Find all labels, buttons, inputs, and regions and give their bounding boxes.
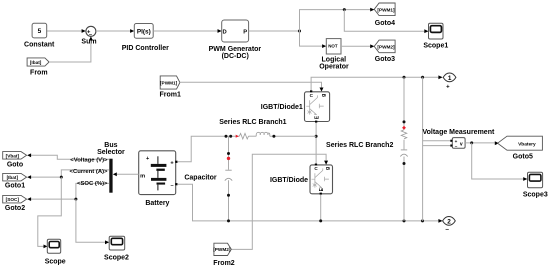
node capacitor top terminal <box>227 152 230 155</box>
wire SOC junction down to Scope2 <box>76 199 106 242</box>
svg-text:[Vbat]: [Vbat] <box>6 153 20 158</box>
node top rail to RLC branch2 <box>403 76 406 79</box>
svg-text:Goto: Goto <box>7 162 23 169</box>
svg-text:Vbatery: Vbatery <box>518 142 536 148</box>
svg-text:Constant: Constant <box>24 42 55 49</box>
wire From to Sum minus input <box>49 40 91 62</box>
svg-text:<Current (A)>: <Current (A)> <box>70 169 109 175</box>
scope block Scope1 <box>429 23 444 39</box>
svg-text:[SOC]: [SOC] <box>6 197 20 202</box>
goto tag Goto2 [SOC] <box>3 195 27 203</box>
wire Sum to PID <box>96 30 131 32</box>
node RLC branch1 left terminal <box>229 135 232 138</box>
goto tag Goto5 Vbatery <box>498 136 543 150</box>
svg-text:(DC-DC): (DC-DC) <box>222 53 249 60</box>
svg-text:NOT: NOT <box>328 44 338 49</box>
pwm generator block <box>222 20 249 42</box>
svg-text:Goto2: Goto2 <box>5 205 25 212</box>
from tag From1 [PWM1] <box>160 76 180 89</box>
scope block Scope <box>47 239 60 253</box>
polarity mark red capacitor <box>227 157 230 160</box>
svg-text:[PWM1]: [PWM1] <box>160 80 178 85</box>
wire IGBT1 emitter down to RLC1 node and IGBT2 collector <box>315 123 317 164</box>
goto tag Goto3 [PWM2] <box>374 40 395 53</box>
svg-text:Goto4: Goto4 <box>375 20 395 27</box>
svg-text:[Ibat]: [Ibat] <box>7 175 19 180</box>
wire bus selector Voltage output to Goto tag <box>31 155 109 159</box>
wire NOT to Goto3 <box>341 45 371 47</box>
constant block Constant <box>32 23 47 38</box>
node RLC1 output junction <box>315 135 318 138</box>
node bottom rail IGBT2 emitter <box>319 219 322 222</box>
node current branch junction <box>60 176 63 179</box>
series RLC branch2 vertical <box>403 77 405 221</box>
wire junction up to Goto4 <box>300 10 372 31</box>
svg-text:From1: From1 <box>159 92 181 99</box>
svg-text:Capacitor: Capacitor <box>184 174 217 181</box>
wire between R and L <box>249 135 257 137</box>
svg-text:Series RLC Branch2: Series RLC Branch2 <box>326 142 393 149</box>
wire battery plus up to RLC branch1 <box>178 136 240 162</box>
resistor R of Series RLC Branch2 <box>401 130 407 139</box>
scope block Scope3 <box>528 172 543 188</box>
svg-text:Sum: Sum <box>81 39 96 46</box>
capacitor branch C1 <box>228 136 230 221</box>
scope block Scope2 <box>109 236 125 250</box>
wire VM junction down to Scope3 <box>472 143 524 179</box>
wire PID to PWM Generator <box>153 30 218 32</box>
wire PWM output to junction <box>249 30 300 32</box>
svg-text:PI(s): PI(s) <box>137 28 151 35</box>
node SOC branch junction <box>74 198 77 201</box>
capacitor plates <box>225 169 231 171</box>
svg-text:Scope2: Scope2 <box>104 255 129 262</box>
svg-text:Goto3: Goto3 <box>375 56 395 63</box>
inductor L of Series RLC Branch1 <box>256 132 270 136</box>
svg-text:IGBT/Diode: IGBT/Diode <box>270 177 308 184</box>
svg-text:P: P <box>243 30 247 36</box>
capacitor plates of branch2 <box>401 149 407 151</box>
node bottom rail voltage measurement <box>421 219 424 222</box>
node bottom rail RLC branch2 <box>403 219 406 222</box>
svg-text:+: + <box>446 85 450 91</box>
port 2 oval <box>443 217 456 226</box>
wire Constant to Sum <box>47 30 82 32</box>
from tag From [Ibat] <box>27 58 49 66</box>
svg-text:2: 2 <box>447 218 451 225</box>
svg-text:<SOC (%)>: <SOC (%)> <box>77 181 108 187</box>
node RLC branch2 bottom terminal <box>403 162 406 165</box>
wire battery m to bus selector <box>116 173 138 175</box>
wire junction down to NOT operator <box>300 31 324 46</box>
wire top rail down to voltage measurement inputs <box>423 77 451 221</box>
svg-text:m: m <box>140 173 145 179</box>
wire bus selector SOC output to Goto2 tag <box>31 183 109 199</box>
goto tag Goto [Vbat] <box>3 152 27 160</box>
svg-text:Scope3: Scope3 <box>523 191 548 198</box>
wire L to junction <box>270 135 316 137</box>
svg-text:Selector: Selector <box>97 149 125 156</box>
svg-text:Scope: Scope <box>45 259 66 266</box>
goto tag Goto1 [Ibat] <box>3 173 27 181</box>
battery block <box>139 151 176 195</box>
svg-text:Logical: Logical <box>322 57 347 64</box>
svg-text:From: From <box>30 69 48 76</box>
svg-text:Goto5: Goto5 <box>513 154 533 161</box>
svg-text:5: 5 <box>38 28 42 35</box>
svg-text:g: g <box>321 94 327 97</box>
node RLC branch2 top terminal <box>403 120 406 123</box>
svg-text:[PWM2]: [PWM2] <box>377 44 395 49</box>
bus selector block <box>109 159 112 193</box>
svg-text:Voltage Measurement: Voltage Measurement <box>422 129 495 136</box>
wire voltage measurement output to Goto5 <box>465 142 495 144</box>
node top rail to voltage measurement <box>421 76 424 79</box>
node capacitor top junction <box>225 135 228 138</box>
svg-text:Battery: Battery <box>145 200 169 207</box>
svg-text:D: D <box>223 30 227 36</box>
wire From2 up to IGBT2 gate <box>231 154 326 249</box>
wire bus selector Current output to Goto1 tag <box>31 170 109 177</box>
svg-text:Goto1: Goto1 <box>5 183 25 190</box>
port 1 oval <box>443 73 456 82</box>
svg-text:v: v <box>460 142 463 148</box>
svg-text:PID Controller: PID Controller <box>122 45 169 52</box>
svg-text:From2: From2 <box>213 260 235 267</box>
node RLC branch1 right terminal <box>272 135 275 138</box>
svg-text:Bus: Bus <box>104 142 117 149</box>
wire current junction down to Scope <box>38 177 62 246</box>
wire junction down to Scope1 <box>344 10 425 32</box>
svg-text:Scope1: Scope1 <box>423 43 448 50</box>
wire battery minus to bottom rail and port 2 <box>178 184 439 221</box>
logical operator NOT block <box>326 39 341 54</box>
svg-text:–: – <box>170 183 173 189</box>
node PWM branch junction <box>298 30 301 33</box>
svg-text:1: 1 <box>448 75 452 82</box>
from tag From2 [PWM2] <box>214 243 231 255</box>
svg-text:[Ibat]: [Ibat] <box>30 60 42 65</box>
svg-text:–: – <box>455 144 458 149</box>
node Goto4/Scope1 junction <box>343 8 346 11</box>
igbt U2 IGBT/Diode block <box>310 165 333 194</box>
svg-text:[PWM1]: [PWM1] <box>377 7 395 12</box>
svg-text:<Voltage (V)>: <Voltage (V)> <box>70 158 108 164</box>
svg-text:IGBT/Diode1: IGBT/Diode1 <box>261 104 303 111</box>
polarity mark red RLC branch1 <box>236 135 239 138</box>
igbt U1 IGBT/Diode1 block <box>305 92 330 122</box>
voltage measurement block <box>452 138 465 149</box>
sum block Sum <box>86 26 96 36</box>
wire IGBT2 emitter to bottom rail <box>320 195 322 221</box>
wire From1 to IGBT1 gate <box>180 82 322 88</box>
svg-text:–: – <box>445 226 449 233</box>
svg-text:g: g <box>325 167 331 170</box>
svg-text:[PWM2]: [PWM2] <box>213 247 231 252</box>
node bottom rail capacitor <box>227 219 230 222</box>
polarity mark red RLC branch2 <box>402 126 406 130</box>
wire IGBT1 collector to top rail and output port 1 <box>311 77 439 90</box>
goto tag Goto4 [PWM1] <box>374 3 395 16</box>
node capacitor bottom terminal <box>227 194 230 197</box>
resistor R of Series RLC Branch1 <box>239 133 248 139</box>
svg-text:Operator: Operator <box>319 64 349 71</box>
node VM output junction <box>470 141 473 144</box>
pid controller U-PID <box>134 24 153 39</box>
svg-text:Series RLC Branch1: Series RLC Branch1 <box>219 119 286 126</box>
svg-text:PWM Generator: PWM Generator <box>209 46 262 53</box>
